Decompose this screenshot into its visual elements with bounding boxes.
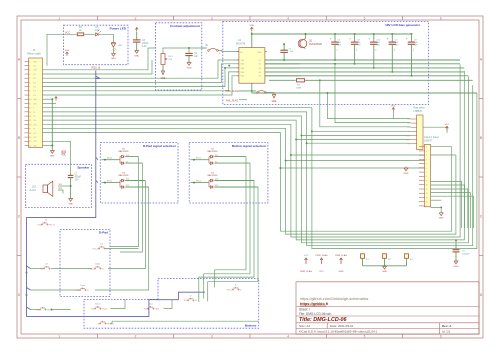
svg-text:VEE: VEE [272, 100, 277, 103]
svg-text:VS2: VS2 [241, 64, 244, 66]
svg-text:2: 2 [135, 16, 137, 20]
svg-text:2: 2 [426, 151, 427, 153]
svg-text:CPL: CPL [406, 139, 409, 141]
svg-text:CP: CP [33, 116, 35, 118]
svg-text:15: 15 [426, 206, 428, 208]
svg-text:P12_U: P12_U [93, 248, 99, 250]
svg-text:VDD: VDD [304, 255, 309, 257]
svg-text:P11: P11 [184, 300, 187, 302]
svg-text:+: + [406, 37, 408, 41]
svg-text:15: 15 [29, 120, 31, 122]
svg-text:UD1: UD1 [33, 120, 36, 122]
svg-text:BAT42WS: BAT42WS [207, 150, 218, 153]
svg-text:VEE: VEE [161, 77, 166, 80]
svg-text:5: 5 [364, 16, 366, 20]
svg-text:D-Pad signal selection: D-Pad signal selection [143, 144, 176, 148]
svg-text:GND: GND [439, 218, 444, 220]
svg-text:S: S [33, 108, 34, 110]
svg-text:P13: P13 [144, 308, 147, 310]
svg-text:BAT42WS: BAT42WS [118, 150, 129, 153]
svg-text:Up: Up [101, 244, 103, 246]
svg-text:50V: 50V [376, 45, 380, 47]
svg-text:Button signal selection: Button signal selection [232, 144, 266, 148]
svg-text:7: 7 [29, 87, 30, 89]
svg-text:5: 5 [29, 78, 30, 80]
svg-text:LED: LED [118, 45, 123, 47]
svg-text:GND: GND [134, 55, 139, 57]
svg-text:10V: 10V [75, 180, 80, 182]
svg-text:3: 3 [211, 16, 213, 20]
svg-text:P11: P11 [91, 308, 94, 310]
svg-text:50V: 50V [414, 45, 418, 47]
svg-text:Down: Down [80, 285, 85, 287]
svg-text:4: 4 [287, 16, 289, 20]
svg-text:V2: V2 [407, 123, 409, 125]
svg-text:6: 6 [440, 16, 442, 20]
svg-text:4: 4 [426, 159, 427, 161]
svg-text:Title: DMG-LCD-06: Title: DMG-LCD-06 [299, 317, 348, 323]
svg-text:1: 1 [426, 147, 427, 149]
svg-text:1 D: 1 D [215, 185, 219, 187]
svg-text:FL5: FL5 [33, 95, 36, 97]
svg-text:7: 7 [426, 172, 427, 174]
svg-text:Rev: A: Rev: A [442, 324, 452, 328]
svg-text:1200pF: 1200pF [462, 254, 470, 256]
svg-text:VOL: VOL [61, 154, 66, 157]
svg-text:10: 10 [29, 99, 31, 101]
svg-text:Power LED: Power LED [110, 26, 127, 30]
svg-text:+: + [330, 37, 332, 41]
svg-text:V1: V1 [407, 119, 409, 121]
svg-text:VCC: VCC [65, 32, 70, 34]
svg-text:LH8578: LH8578 [414, 110, 423, 113]
svg-text:PWR_FLAG: PWR_FLAG [300, 270, 312, 273]
svg-text:1: 1 [58, 16, 60, 20]
svg-text:2: 2 [29, 66, 30, 68]
svg-text:P14 1: P14 1 [107, 158, 113, 160]
svg-text:B: B [18, 136, 20, 140]
svg-text:VS5: VS5 [241, 76, 244, 78]
svg-text:50V: 50V [338, 45, 342, 47]
svg-text:https://gekkio.fi: https://gekkio.fi [300, 302, 328, 306]
svg-text:Size: A4: Size: A4 [299, 324, 310, 328]
svg-text:V4: V4 [259, 72, 261, 74]
svg-text:+: + [349, 37, 351, 41]
svg-text:100uF: 100uF [75, 177, 82, 179]
svg-text:Speaker: Speaker [77, 166, 90, 170]
svg-text:8 ohm: 8 ohm [30, 190, 36, 192]
svg-text:14: 14 [29, 116, 31, 118]
svg-text:3: 3 [426, 155, 427, 157]
svg-text:100R: 100R [296, 88, 302, 90]
svg-text:VS3: VS3 [241, 68, 244, 70]
svg-text:File: DMG-LCD-06.sch: File: DMG-LCD-06.sch [299, 312, 331, 316]
svg-text:MAX749: MAX749 [236, 43, 246, 46]
svg-text:GND: GND [187, 67, 192, 69]
svg-text:13: 13 [426, 197, 428, 199]
svg-text:18V LCD bias generator: 18V LCD bias generator [385, 23, 421, 27]
svg-text:BAT42WS: BAT42WS [207, 174, 218, 177]
svg-text:3: 3 [211, 334, 213, 338]
svg-text:ST: ST [33, 129, 35, 131]
svg-text:Right: Right [96, 263, 101, 266]
svg-text:BAT42WS: BAT42WS [118, 174, 129, 177]
svg-text:CPL: CPL [33, 133, 36, 135]
svg-text:9: 9 [29, 95, 30, 97]
svg-text:SP2: SP2 [59, 188, 63, 190]
svg-text:3: 3 [375, 50, 376, 52]
svg-text:6: 6 [29, 82, 30, 84]
svg-text:1: 1 [58, 334, 60, 338]
svg-text:VDD: VDD [249, 25, 254, 27]
svg-text:100uF: 100uF [142, 43, 149, 45]
svg-text:6.3V: 6.3V [142, 46, 147, 48]
svg-text:50V: 50V [395, 45, 399, 47]
svg-text:LH5077: LH5077 [424, 139, 433, 142]
svg-text:1: 1 [337, 50, 338, 52]
svg-text:16: 16 [29, 124, 31, 126]
svg-text:50V: 50V [357, 45, 361, 47]
svg-text:1: 1 [29, 61, 30, 63]
svg-text:9: 9 [426, 180, 427, 182]
svg-text:P13: P13 [38, 224, 41, 226]
svg-text:+: + [368, 37, 370, 41]
svg-text:+1uF: +1uF [289, 51, 295, 53]
svg-text:Left: Left [45, 263, 49, 266]
svg-text:5: 5 [413, 50, 414, 52]
svg-text:VS1: VS1 [241, 60, 244, 62]
svg-text:6: 6 [440, 334, 442, 338]
svg-text:3: 3 [29, 70, 30, 72]
svg-text:2SA1015GR: 2SA1015GR [309, 43, 322, 46]
svg-text:4: 4 [394, 50, 395, 52]
svg-text:21: 21 [29, 145, 31, 147]
svg-text:2: 2 [135, 334, 137, 338]
svg-text:Start: Start [155, 307, 159, 310]
svg-text:1: 1 [206, 53, 207, 55]
svg-text:19: 19 [29, 137, 31, 139]
svg-text:13: 13 [29, 112, 31, 114]
svg-text:1uF: 1uF [194, 56, 199, 58]
svg-text:5: 5 [364, 334, 366, 338]
svg-text:1 R: 1 R [215, 179, 219, 181]
svg-text:11: 11 [29, 103, 31, 105]
svg-text:12: 12 [29, 108, 31, 110]
svg-text:KiCad E.D.A. kicad 5.1.10-85a: KiCad E.D.A. kicad 5.1.10-85ab691d85~88~… [299, 330, 378, 334]
svg-text:VDD: VDD [391, 106, 396, 108]
svg-text:5: 5 [426, 164, 427, 166]
svg-text:VCC: VCC [319, 271, 324, 273]
svg-text:1 R: 1 R [126, 179, 130, 181]
svg-text:1 U: 1 U [126, 155, 130, 157]
svg-text:b: b [240, 289, 241, 291]
svg-text:1 D: 1 D [126, 185, 130, 187]
svg-text:GND: GND [111, 58, 116, 60]
svg-text:https://github.com/Gekkio/gb-s: https://github.com/Gekkio/gb-schematics [300, 297, 368, 301]
svg-text:10: 10 [426, 185, 428, 187]
svg-text:Select: Select [95, 303, 101, 306]
svg-text:Ribbon cable: Ribbon cable [27, 53, 42, 56]
svg-text:V5: V5 [259, 76, 261, 78]
svg-text:FL1: FL1 [33, 74, 36, 76]
svg-text:V1: V1 [259, 60, 261, 62]
svg-text:14: 14 [426, 202, 428, 204]
svg-text:PWR_FLAG: PWR_FLAG [315, 254, 327, 257]
svg-text:8: 8 [426, 176, 427, 178]
svg-text:12: 12 [426, 193, 428, 195]
svg-text:Contrast adjustment: Contrast adjustment [170, 24, 200, 28]
svg-text:P14 2: P14 2 [107, 181, 113, 183]
svg-text:Select: Select [102, 307, 107, 310]
svg-text:LS1: LS1 [32, 187, 37, 189]
svg-text:B: B [480, 136, 482, 140]
svg-text:FL2: FL2 [33, 87, 36, 89]
svg-text:Date: 2021-09-01: Date: 2021-09-01 [330, 324, 354, 328]
svg-text:Id: 1/1: Id: 1/1 [442, 330, 451, 334]
svg-text:1 U: 1 U [215, 155, 219, 157]
svg-text:17: 17 [29, 129, 31, 131]
svg-text:11: 11 [426, 189, 428, 191]
svg-text:GND: GND [339, 271, 344, 273]
svg-text:CP1: CP1 [33, 137, 36, 139]
svg-text:4: 4 [287, 334, 289, 338]
svg-text:V2: V2 [259, 64, 261, 66]
svg-text:VDD: VDD [65, 50, 70, 52]
svg-text:FL2: FL2 [33, 78, 36, 80]
svg-text:8: 8 [29, 91, 30, 93]
svg-text:V3: V3 [407, 127, 409, 129]
svg-text:VCC: VCC [445, 124, 450, 126]
svg-text:GND: GND [404, 173, 409, 175]
svg-text:FAIL_FLAG: FAIL_FLAG [226, 100, 238, 103]
svg-text:4: 4 [29, 74, 30, 76]
svg-text:+: + [387, 37, 389, 41]
svg-text:GND: GND [382, 271, 387, 273]
svg-text:VCL: VCL [33, 66, 36, 68]
svg-text:D-Pad: D-Pad [99, 231, 108, 235]
svg-text:P10_L: P10_L [227, 289, 232, 291]
svg-text:GND: GND [454, 266, 459, 268]
svg-text:GND: GND [68, 203, 73, 205]
svg-text:P15 2: P15 2 [196, 181, 202, 183]
svg-text:6: 6 [426, 168, 427, 170]
svg-text:SP1: SP1 [59, 184, 63, 186]
svg-text:20: 20 [29, 141, 31, 143]
svg-text:FL3: FL3 [33, 82, 36, 84]
svg-text:PWR_FLAG: PWR_FLAG [225, 90, 238, 93]
svg-text:PWR_FLAG: PWR_FLAG [335, 254, 347, 257]
svg-text:FL3: FL3 [33, 91, 36, 93]
svg-text:Start: Start [149, 303, 153, 306]
svg-text:18: 18 [29, 133, 31, 135]
svg-text:Buttons: Buttons [245, 324, 257, 328]
svg-text:P1[0..3]: P1[0..3] [91, 66, 100, 69]
svg-text:GND: GND [50, 155, 55, 157]
svg-text:VS4: VS4 [241, 72, 244, 74]
svg-text:V3: V3 [259, 68, 261, 70]
svg-text:P15 1: P15 1 [196, 158, 202, 160]
svg-text:3.6V: 3.6V [95, 29, 100, 32]
svg-text:P11_R: P11_R [49, 224, 55, 226]
svg-text:UD0: UD0 [33, 124, 36, 126]
svg-text:2: 2 [219, 53, 220, 55]
svg-text:2: 2 [356, 50, 357, 52]
